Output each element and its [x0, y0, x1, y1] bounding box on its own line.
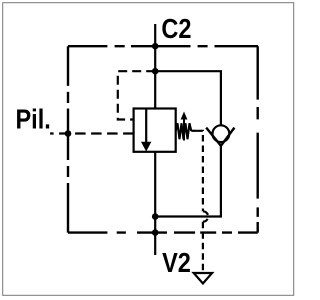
- drain line (dashed) from spring down past crossing to drain: [197, 131, 203, 212]
- wire: valve box bottom down to V2 port: [154, 152, 156, 255]
- junction dot C2/envelope top: [152, 43, 159, 50]
- wire: spring to drain line: [191, 130, 196, 132]
- svg-text:V2: V2: [162, 248, 191, 278]
- envelope (dashed enclosure) top edge: [68, 45, 258, 47]
- spring (adjustable) on valve right side: [176, 123, 192, 139]
- junction dot Pil./envelope left: [65, 130, 72, 137]
- envelope bottom edge: [68, 231, 258, 233]
- junction dot C2/pilot branch: [152, 68, 159, 75]
- valve box (counterbalance element): [134, 109, 176, 152]
- wire: check valve down then left to V2 line: [155, 146, 221, 217]
- valve flow path arrow (down): [145, 109, 147, 144]
- envelope right edge: [257, 46, 259, 232]
- svg-text:Pil.: Pil.: [16, 105, 51, 135]
- line hop over wire: [203, 211, 208, 221]
- pilot line (internal, from C2 branch to valve box, dashed jog): [118, 71, 155, 119]
- junction dot V2 line / check valve branch: [152, 213, 159, 220]
- svg-text:C2: C2: [161, 14, 191, 44]
- spring adjustment arrow: [183, 116, 185, 141]
- check valve circle: [213, 125, 230, 142]
- wire: branch from C2 line right and down to check valve: [155, 71, 221, 125]
- drain arrowhead (hollow): [194, 273, 212, 284]
- junction dot V2 line / envelope bottom: [152, 229, 159, 236]
- check valve seat: [206, 128, 234, 146]
- pilot line (external, from Pil. label to valve box, dashed): [50, 132, 134, 134]
- wire: C2 port line down to valve box top: [154, 24, 156, 109]
- envelope left edge: [67, 46, 69, 232]
